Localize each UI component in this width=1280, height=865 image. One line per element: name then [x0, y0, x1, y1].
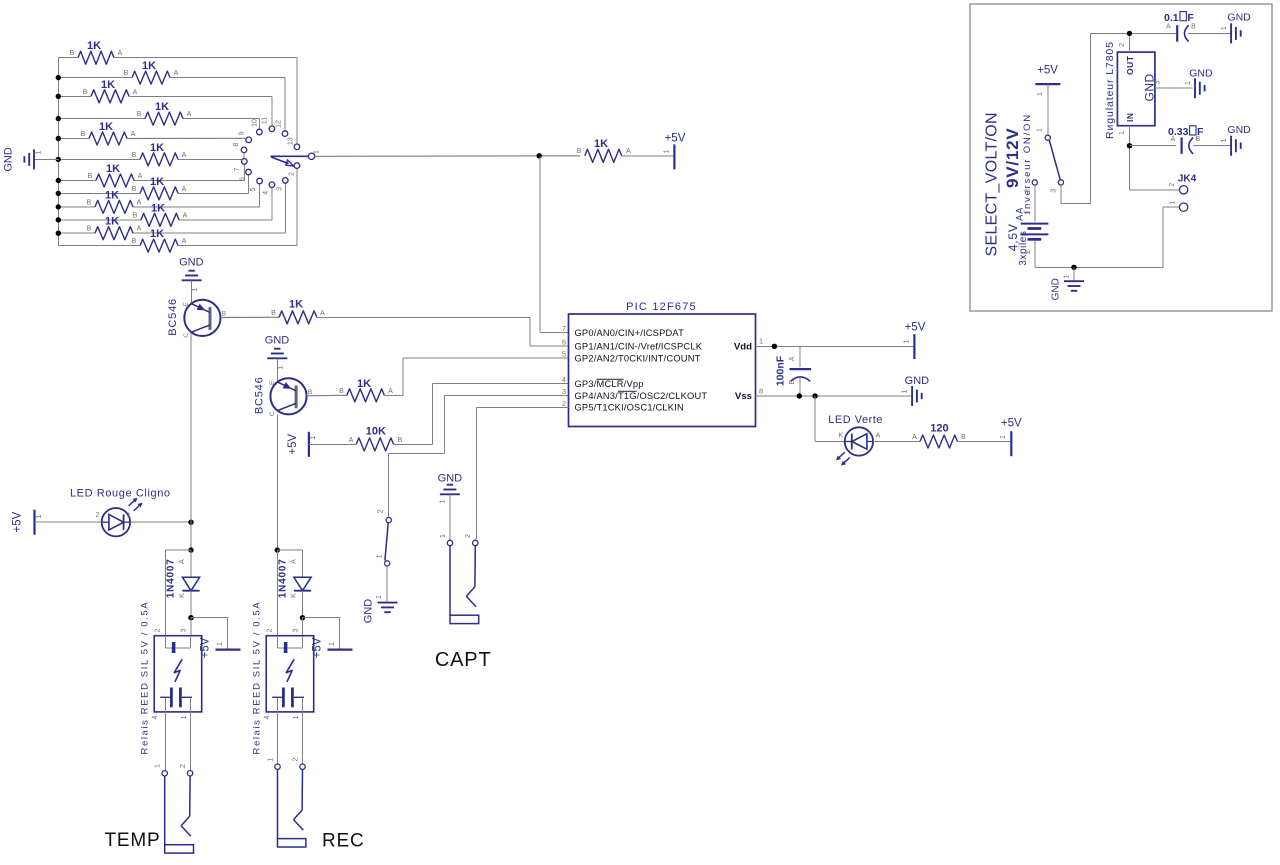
svg-text:2: 2 — [96, 512, 100, 519]
svg-text:1: 1 — [377, 554, 384, 558]
svg-text:13: 13 — [288, 137, 295, 145]
wire PIC pin2 to J3 — [475, 408, 568, 541]
rotary switch SW1 wiper — [270, 156, 308, 166]
relay RL2 REED SIL — [252, 601, 314, 755]
svg-text:SELECT_VOLT/ON: SELECT_VOLT/ON — [984, 112, 1001, 256]
svg-text:B: B — [132, 152, 137, 159]
svg-text:A: A — [137, 226, 142, 233]
svg-text:B: B — [577, 148, 582, 155]
power +5V P2 (10K) — [287, 432, 317, 457]
ground GND Q1 emitter — [179, 257, 204, 304]
svg-text:1: 1 — [155, 764, 162, 768]
capacitor C2 0.1uF — [1164, 12, 1196, 42]
svg-text:1: 1 — [1185, 81, 1192, 85]
wire +5V to LED rouge — [35, 521, 102, 523]
svg-text:F: F — [1187, 12, 1194, 24]
wire IN to C3 — [1130, 145, 1177, 147]
svg-text:1K: 1K — [150, 176, 164, 188]
svg-text:+5V: +5V — [1001, 418, 1022, 430]
wire +5V to SW4 — [1047, 84, 1049, 135]
resistor R5 1K — [81, 121, 136, 145]
svg-text:B: B — [132, 186, 137, 193]
svg-text:REC: REC — [322, 830, 365, 851]
svg-text:Rиgulateur L7805: Rиgulateur L7805 — [1104, 41, 1116, 139]
rotary switch SW1 contact 10 — [257, 129, 263, 135]
svg-text:1: 1 — [127, 513, 131, 520]
label SELECT_VOLT/ON — [984, 112, 1001, 256]
wire battery to bottom rail — [1025, 241, 1163, 268]
svg-text:1K: 1K — [142, 60, 156, 72]
regulator U2 L7805 box — [1104, 41, 1157, 139]
wire ladder row 6 — [58, 153, 244, 160]
U1 pin 6 GP1 — [562, 338, 703, 352]
wire Vss to GND — [756, 395, 913, 397]
ground GND C2 — [1221, 12, 1251, 44]
svg-text:BC546: BC546 — [254, 376, 266, 414]
svg-text:1: 1 — [759, 337, 763, 346]
svg-text:1K: 1K — [594, 138, 608, 150]
wire SW1 pin1 to node — [315, 155, 580, 158]
rotary switch SW1 contact 9 — [246, 137, 252, 143]
rotary switch SW1 contact 11 pin label — [262, 117, 269, 124]
svg-text:C: C — [183, 333, 190, 338]
svg-text:1: 1 — [440, 534, 447, 538]
svg-text:1: 1 — [1170, 200, 1177, 204]
svg-text:E: E — [183, 302, 190, 307]
svg-text:2: 2 — [288, 172, 295, 176]
svg-text:GND: GND — [1227, 12, 1251, 24]
power +5V P8 (battery switch) — [1035, 65, 1060, 96]
transistor Q2 BC546 — [254, 376, 313, 416]
wire ladder row 7 — [58, 164, 244, 180]
svg-text:A: A — [789, 356, 796, 361]
wire Q1 collector down — [190, 333, 192, 550]
svg-text:GP5/T1CKI/OSC1/CLKIN: GP5/T1CKI/OSC1/CLKIN — [575, 403, 684, 413]
wire to RL1 coil pin2 — [166, 550, 192, 636]
wire +5V to R16 — [309, 443, 356, 445]
wire U2 OUT pin2 — [1119, 33, 1130, 52]
svg-text:B: B — [70, 50, 75, 57]
svg-text:2: 2 — [1169, 183, 1176, 187]
svg-text:A: A — [388, 388, 393, 395]
svg-text:3: 3 — [292, 628, 299, 632]
svg-text:K: K — [179, 593, 186, 598]
LED D3 Verte — [828, 414, 883, 465]
switch SW2 lever — [385, 523, 388, 561]
wire rail to JK4 pin1 — [1163, 207, 1180, 267]
wire Vdd to +5V — [756, 345, 915, 347]
svg-text:B: B — [81, 131, 86, 138]
ground GND Q2 emitter — [265, 335, 290, 383]
rotary switch SW1 contact 5 — [257, 178, 263, 184]
wire Q2 base to R15 — [307, 394, 347, 397]
connector J2 pins — [268, 757, 306, 769]
power +5V P6 (RL1) — [199, 637, 240, 658]
rotary switch SW1 contact 6 pin label — [240, 177, 247, 181]
rotary switch SW1 contact 11 — [269, 126, 275, 132]
svg-text:B: B — [137, 111, 142, 118]
svg-text:LED Verte: LED Verte — [828, 414, 883, 426]
wire D4 to RL2 pin3 — [302, 618, 304, 636]
svg-text:1: 1 — [278, 365, 285, 369]
ground GND C3 — [1221, 124, 1251, 156]
svg-text:1K: 1K — [101, 79, 115, 91]
rotary switch SW1 contact 12 pin label — [276, 120, 283, 128]
svg-text:B: B — [789, 380, 796, 385]
svg-text:A: A — [182, 152, 187, 159]
svg-text:+5V: +5V — [1037, 65, 1058, 77]
junction ladder row 11 — [56, 231, 61, 236]
wire C2 to GND — [1189, 32, 1231, 34]
label Inverseur ON/ON — [1022, 113, 1033, 213]
svg-text:1K: 1K — [155, 101, 169, 113]
resistor R8 1K — [132, 176, 187, 200]
rotary switch SW1 contact 12 — [282, 131, 288, 137]
connector J3 pins — [440, 534, 478, 546]
rotary switch SW1 contact 2 — [294, 163, 300, 169]
svg-text:1: 1 — [1221, 138, 1228, 142]
svg-text:TEMP: TEMP — [105, 830, 161, 851]
U1 pin 7 GP0 — [562, 324, 684, 338]
svg-text:1: 1 — [1037, 92, 1044, 96]
rotary switch SW1 contact 9 pin label — [238, 131, 245, 135]
wire Q2-C to RL2 pin2 — [276, 550, 278, 636]
svg-text:3: 3 — [1155, 80, 1162, 84]
wire D2 to RL1 pin3 — [190, 618, 192, 636]
power +5V P1 — [664, 133, 686, 170]
svg-text:C: C — [269, 411, 276, 416]
svg-text:B: B — [132, 238, 137, 245]
resistor R16 10K — [349, 426, 403, 451]
label TEMP — [105, 830, 161, 851]
U1 pin 5 GP2 — [562, 350, 701, 364]
wire OUT rail to C2 — [1172, 32, 1176, 34]
svg-text:PIC 12F675: PIC 12F675 — [626, 301, 697, 313]
svg-text:6: 6 — [562, 338, 566, 347]
svg-text:3: 3 — [277, 187, 284, 191]
svg-text:AA: AA — [1015, 207, 1025, 221]
svg-text:1K: 1K — [357, 378, 371, 390]
rotary switch SW1 contact 2 pin label — [288, 172, 295, 176]
svg-text:LED Rouge Cligno: LED Rouge Cligno — [70, 487, 171, 499]
svg-text:1: 1 — [181, 715, 188, 719]
svg-text:A: A — [1170, 136, 1175, 143]
svg-text:1: 1 — [1119, 131, 1126, 135]
svg-text:1: 1 — [1221, 26, 1228, 30]
wire R17 to +5V — [958, 441, 1012, 443]
svg-text:1K: 1K — [105, 189, 119, 201]
wire Q1 base to R14 — [221, 316, 279, 318]
capacitor C3 0.33uF — [1168, 126, 1204, 154]
wire node to PIC pin7 — [540, 156, 569, 333]
resistor R15 1K — [339, 378, 393, 402]
svg-text:A: A — [912, 434, 917, 441]
svg-text:1: 1 — [36, 514, 43, 518]
svg-text:B: B — [1191, 24, 1196, 31]
rotary switch SW1 contact 10 pin label — [251, 119, 258, 127]
svg-text:B: B — [83, 89, 88, 96]
U1 pin 2 GP5 — [562, 399, 684, 413]
svg-text:1: 1 — [376, 595, 383, 599]
svg-text:Vss: Vss — [735, 391, 752, 402]
svg-text:GND: GND — [3, 147, 15, 172]
svg-text:11: 11 — [262, 117, 269, 124]
svg-text:10K: 10K — [366, 426, 386, 438]
wire R14 to PIC pin6 — [317, 317, 569, 346]
svg-text:1: 1 — [902, 389, 909, 393]
power +5V P5 (LED rouge) — [12, 510, 44, 535]
svg-text:K: K — [838, 433, 843, 440]
svg-text:8: 8 — [759, 387, 763, 396]
svg-text:B: B — [222, 310, 226, 317]
label 3xpiles — [1018, 230, 1029, 265]
wire ladder ground bus — [57, 58, 59, 246]
svg-text:2: 2 — [378, 509, 385, 513]
svg-text:1: 1 — [217, 642, 224, 646]
svg-text:GND: GND — [905, 375, 930, 387]
svg-text:Vdd: Vdd — [734, 341, 752, 352]
svg-text:3: 3 — [1050, 189, 1057, 193]
junction Vss/LED — [812, 393, 817, 398]
wire ladder row 1 — [58, 58, 297, 144]
wire SW2 to GND — [386, 566, 388, 601]
rotary switch SW1 common pin 1 — [308, 150, 320, 160]
junction D2/+5V — [188, 615, 193, 620]
wire LED to R17 — [873, 441, 920, 443]
U1 pin 1 Vdd — [734, 337, 763, 353]
svg-text:2: 2 — [1024, 189, 1031, 193]
wire PIC pin3 to SW2 — [389, 396, 569, 518]
svg-text:1K: 1K — [289, 299, 303, 311]
ground GND ladder — [3, 147, 59, 172]
wire U2 GND pin3 — [1155, 80, 1193, 88]
svg-text:A: A — [131, 131, 136, 138]
svg-text:0.1: 0.1 — [1164, 12, 1179, 24]
svg-text:12: 12 — [276, 120, 283, 128]
svg-text:GND: GND — [1050, 278, 1061, 300]
wire ladder row 10 — [58, 188, 272, 220]
junction D4 top — [275, 547, 280, 552]
svg-text:B: B — [124, 70, 129, 77]
wire RL2 pin1 to jack — [302, 712, 304, 764]
switch SW2 contact 2 — [378, 509, 392, 522]
svg-text:BC546: BC546 — [167, 298, 179, 336]
resistor R10 1K — [133, 202, 188, 226]
wire to D4 — [277, 549, 302, 552]
wire LED rouge to Q1 collector — [131, 521, 192, 523]
svg-text:A: A — [174, 70, 179, 77]
rotary switch SW1 contact 7 — [242, 159, 248, 165]
junction ladder row 9 — [56, 204, 61, 209]
svg-text:5: 5 — [250, 187, 257, 191]
svg-text:1K: 1K — [151, 202, 165, 214]
svg-text:GND: GND — [1227, 124, 1251, 136]
junction D2 top — [188, 547, 193, 552]
junction ladder row 8 — [56, 191, 61, 196]
svg-text:A: A — [291, 559, 298, 564]
resistor R7 1K — [88, 163, 143, 187]
svg-text:9V/12V: 9V/12V — [1003, 127, 1022, 188]
power +5V P7 (RL2) — [311, 637, 352, 658]
svg-text:A: A — [349, 437, 354, 444]
U1 pin 4 GP3 — [562, 375, 644, 389]
svg-text:7: 7 — [234, 167, 241, 171]
svg-text:A: A — [876, 433, 881, 440]
svg-text:4: 4 — [562, 375, 566, 384]
svg-text:2: 2 — [266, 628, 273, 632]
junction ladder row 5 — [56, 136, 61, 141]
svg-text:10: 10 — [251, 119, 258, 127]
wire RL1 pin1 to jack — [189, 712, 191, 771]
resistor R2 1K — [124, 60, 179, 84]
ground GND CAPT — [438, 473, 463, 504]
junction ladder row 4 — [56, 116, 61, 121]
wire D4 to +5V — [303, 618, 340, 650]
label CAPT — [435, 649, 492, 671]
resistor R9 1K — [87, 189, 142, 213]
wire ladder row 12 — [58, 168, 297, 245]
svg-text:2: 2 — [1025, 250, 1032, 254]
svg-text:A: A — [133, 89, 138, 96]
junction D4/+5V — [300, 615, 305, 620]
wire Q2 collector — [276, 415, 278, 551]
junction Q1-C/LED — [188, 520, 193, 525]
svg-text:A: A — [183, 212, 188, 219]
svg-text:A: A — [1166, 24, 1171, 31]
svg-text:3: 3 — [180, 628, 187, 632]
svg-text:1K: 1K — [99, 121, 113, 133]
ground GND SW2 — [362, 595, 397, 623]
wire ladder row 3 — [58, 96, 272, 126]
power +5V P3 (Vdd) — [904, 322, 926, 360]
svg-text:Relais REED SIL 5V / 0.5A: Relais REED SIL 5V / 0.5A — [140, 601, 151, 755]
svg-text:1K: 1K — [106, 163, 120, 175]
transistor Q1 BC546 — [167, 298, 226, 338]
svg-text:100nF: 100nF — [775, 355, 787, 386]
junction ladder row 10 — [56, 217, 61, 222]
resistor R14 1K — [271, 299, 325, 324]
wire GND to J3 pin1 — [449, 494, 451, 540]
svg-text:1K: 1K — [150, 142, 164, 154]
svg-text:A: A — [626, 148, 631, 155]
svg-text:CAPT: CAPT — [435, 649, 492, 671]
rotary switch SW1 contact 4 — [269, 182, 275, 188]
junction Vss/C1 — [797, 393, 802, 398]
svg-text:B: B — [271, 310, 276, 317]
svg-text:GND: GND — [265, 335, 290, 347]
wire cap C1 top — [799, 346, 801, 367]
relay RL1 REED SIL — [140, 601, 202, 755]
svg-text:A: A — [320, 310, 325, 317]
svg-text:JK4: JK4 — [1178, 173, 1197, 184]
svg-text:1: 1 — [314, 150, 321, 154]
svg-text:OUT: OUT — [1125, 55, 1135, 75]
svg-text:1: 1 — [310, 435, 317, 439]
svg-text:+5V: +5V — [287, 433, 299, 454]
junction ladder row 2 — [56, 75, 61, 80]
wire ladder row 4 — [58, 119, 259, 130]
svg-text:A: A — [138, 173, 143, 180]
power +5V P4 (R17) — [1000, 418, 1022, 457]
rotary switch SW1 contact 8 pin label — [233, 142, 240, 146]
svg-text:7: 7 — [562, 324, 566, 333]
svg-text:2: 2 — [180, 764, 187, 768]
junction node pin1/GP0 — [537, 153, 542, 158]
ground GND Vss — [902, 375, 930, 406]
svg-text:1: 1 — [192, 287, 199, 291]
resistor R17 120 — [912, 423, 966, 449]
svg-text:GND: GND — [362, 599, 374, 624]
svg-text:B: B — [87, 199, 92, 206]
svg-text:B: B — [88, 173, 93, 180]
wire ladder row 9 — [58, 184, 259, 207]
ground GND battery — [1050, 267, 1084, 300]
junction OUT rail — [1127, 31, 1132, 36]
svg-text:2: 2 — [154, 628, 161, 632]
diode D2 1N4007 — [165, 550, 199, 618]
jack J2 REC — [278, 769, 306, 847]
resistor R4 1K — [137, 101, 192, 125]
svg-text:A: A — [187, 111, 192, 118]
resistor R3 1K — [83, 79, 138, 103]
svg-text:3xpiles: 3xpiles — [1018, 230, 1029, 265]
svg-text:1K: 1K — [105, 216, 119, 228]
svg-text:1K: 1K — [150, 228, 164, 240]
LED D1 Rouge Cligno — [70, 487, 171, 536]
label REC — [322, 830, 365, 851]
wire ladder row 5 — [58, 137, 245, 139]
svg-text:GND: GND — [438, 473, 463, 485]
svg-text:6: 6 — [240, 177, 247, 181]
wire LED Verte branch — [815, 396, 845, 442]
rotary switch SW1 contact 6 — [246, 169, 252, 175]
rotary switch SW1 contact 3 pin label — [277, 187, 284, 191]
resistor R11 1K — [87, 216, 142, 240]
svg-text:B: B — [1195, 136, 1200, 143]
svg-text:8: 8 — [233, 142, 240, 146]
rotary switch SW1 contact 3 — [283, 178, 289, 184]
svg-text:1: 1 — [664, 149, 671, 153]
switch SW2 contact 1 — [377, 554, 390, 566]
junction ladder row 6 — [56, 157, 61, 162]
svg-text:1: 1 — [1025, 211, 1032, 215]
svg-text:B: B — [133, 212, 138, 219]
svg-text:2: 2 — [293, 757, 300, 761]
resistor R1 1K — [70, 40, 123, 64]
junction ladder row 3 — [56, 94, 61, 99]
svg-text:A: A — [182, 238, 187, 245]
label 9V/12V — [1003, 127, 1022, 188]
svg-text:1K: 1K — [87, 40, 101, 52]
wire cap C1 bottom — [799, 377, 801, 396]
svg-text:GND: GND — [1143, 73, 1157, 101]
svg-text:2: 2 — [1119, 43, 1126, 47]
junction bottom rail GND — [1071, 265, 1076, 270]
connector J1 pins — [155, 764, 193, 776]
svg-text:B: B — [308, 389, 312, 396]
IC U1 PIC 12F675 box — [569, 301, 756, 427]
svg-text:GND: GND — [179, 257, 204, 269]
svg-text:3: 3 — [562, 387, 566, 396]
svg-text:IN: IN — [1125, 113, 1135, 123]
battery BT1 3xpiles — [1021, 224, 1049, 240]
svg-text:B: B — [339, 388, 344, 395]
svg-text:1: 1 — [1037, 128, 1044, 132]
svg-text:4: 4 — [152, 715, 159, 719]
svg-text:Relais REED SIL 5V / 0.5A: Relais REED SIL 5V / 0.5A — [252, 601, 263, 755]
svg-text:1: 1 — [329, 642, 336, 646]
svg-text:+5V: +5V — [12, 511, 24, 532]
